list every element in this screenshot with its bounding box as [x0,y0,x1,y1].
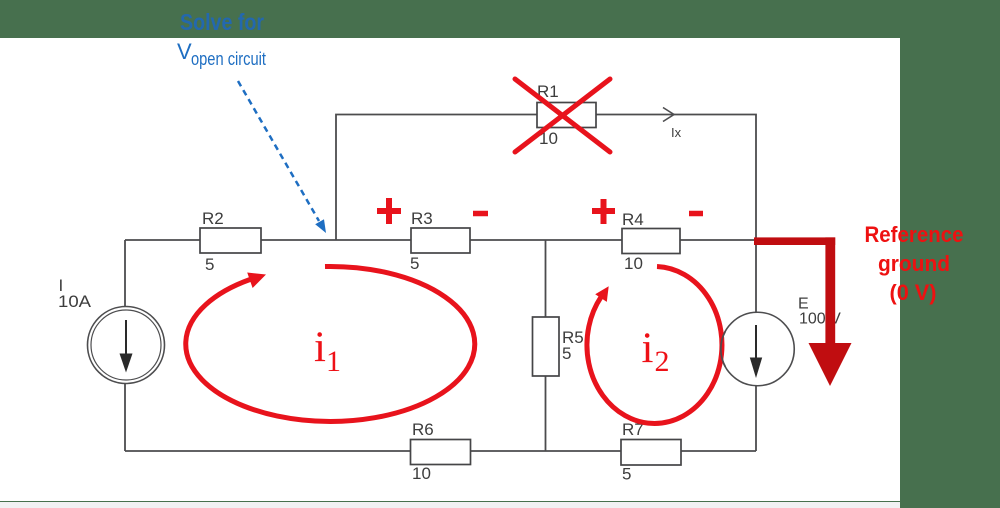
svg-text:10A: 10A [58,292,92,311]
svg-text:R2: R2 [202,209,224,228]
svg-text:2: 2 [655,345,670,378]
svg-text:R4: R4 [622,210,644,229]
svg-text:10: 10 [412,464,431,483]
svg-text:5: 5 [622,465,631,484]
svg-text:i: i [314,324,326,371]
svg-text:Reference: Reference [865,222,964,247]
svg-text:1: 1 [326,345,341,378]
svg-text:5: 5 [205,255,214,274]
svg-text:V: V [177,39,192,64]
svg-text:open circuit: open circuit [191,49,266,69]
svg-text:R3: R3 [411,209,433,228]
svg-text:(0 V): (0 V) [890,280,937,305]
svg-text:Ix: Ix [671,125,682,140]
svg-text:i: i [642,325,654,372]
svg-text:5: 5 [562,344,571,363]
svg-text:Solve for: Solve for [180,9,264,35]
svg-text:10: 10 [624,254,643,273]
svg-text:ground: ground [878,251,950,276]
svg-text:R6: R6 [412,420,434,439]
svg-text:5: 5 [410,254,419,273]
